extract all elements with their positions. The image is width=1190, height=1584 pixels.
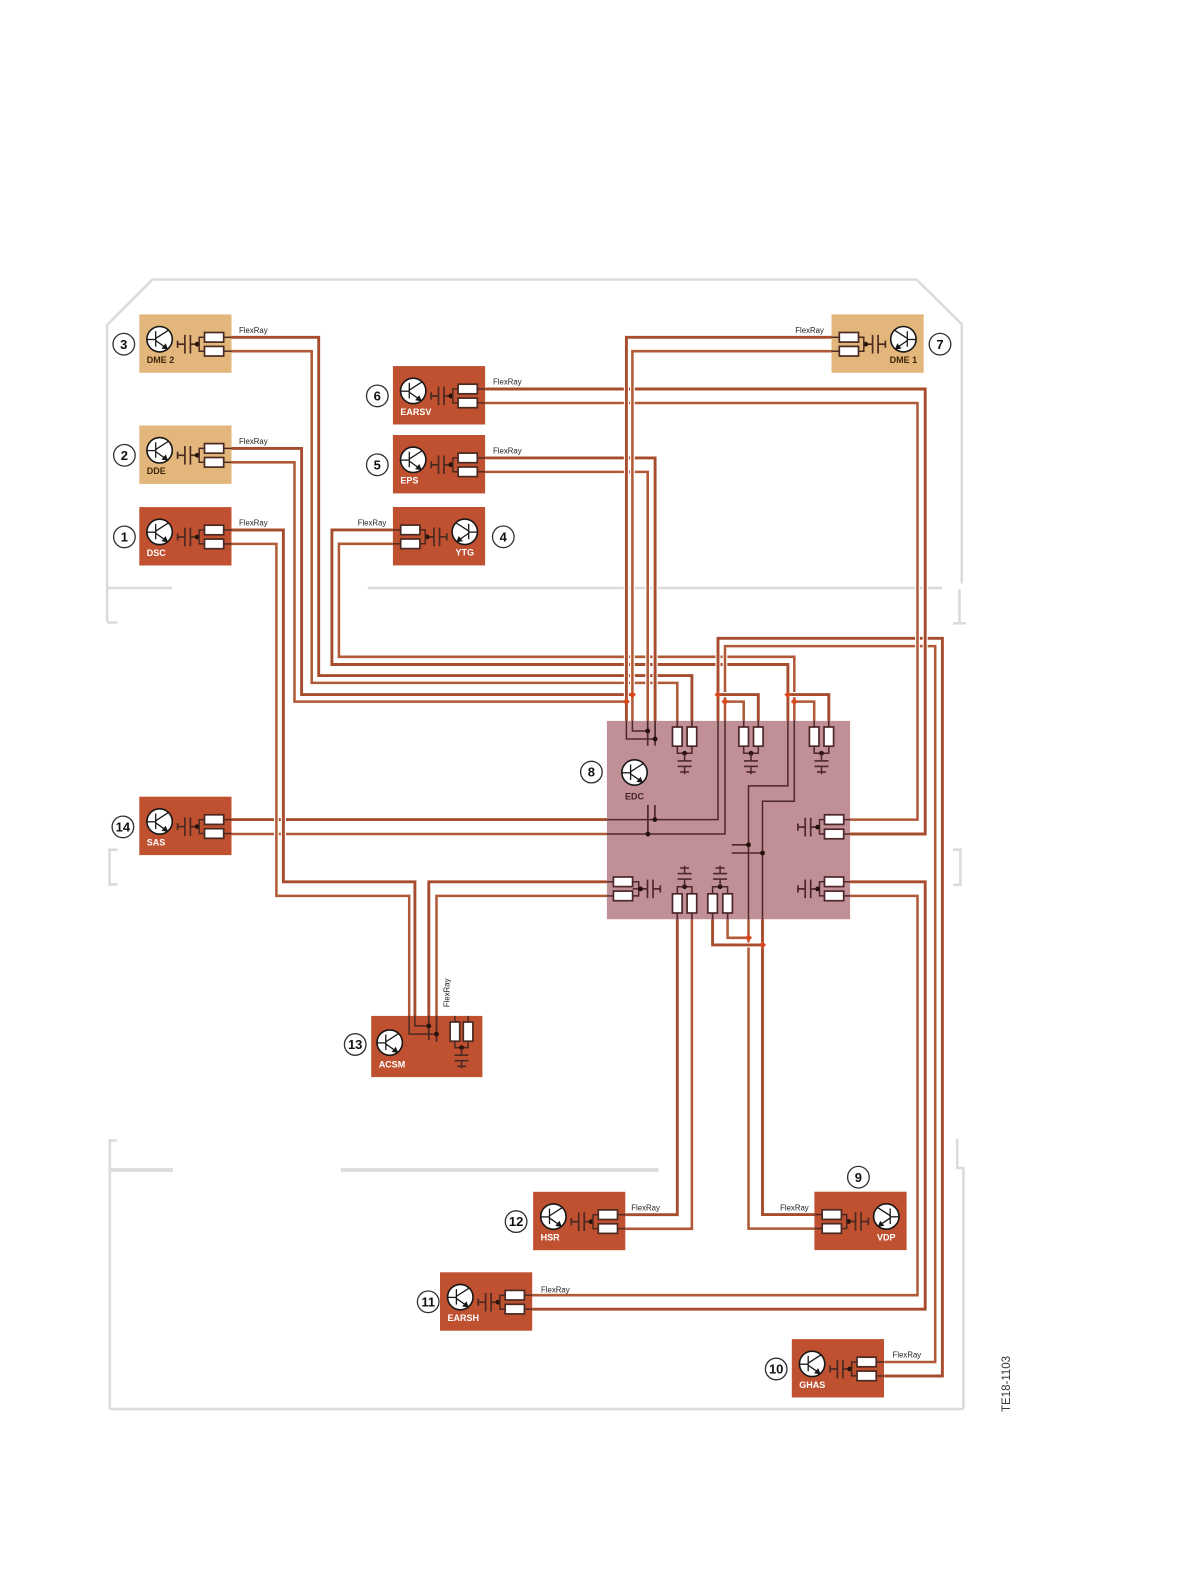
svg-text:EARSV: EARSV (400, 407, 431, 417)
control unit DME 2 box (139, 314, 231, 372)
car body mid sill line (368, 587, 942, 590)
svg-text:EPS: EPS (400, 476, 418, 486)
bus coupling capacitor DSC (178, 528, 198, 547)
EDC internal bus line BM (607, 721, 725, 834)
EDC left connector resistors (613, 877, 632, 887)
svg-text:GHAS: GHAS (799, 1380, 825, 1390)
wire EPS FlexRay BP (485, 458, 655, 722)
transistor symbol YTG (452, 519, 477, 544)
termination resistor DME 1 lower (859, 344, 864, 351)
termination resistor YTG upper (420, 530, 425, 537)
termination resistor VDP lower (841, 1222, 846, 1229)
svg-text:TE18-1103: TE18-1103 (1001, 1356, 1013, 1412)
pin stubs EARSH (524, 1294, 532, 1296)
wire branch to EDC termination 2 left (725, 702, 744, 723)
junction node termination3 BP (784, 691, 791, 698)
svg-text:10: 10 (769, 1362, 783, 1377)
pin stubs VDP (814, 1214, 822, 1216)
item number 14 (112, 816, 134, 838)
car body lower-right edge (957, 1139, 963, 1410)
item number 10 (765, 1358, 787, 1380)
bus coupling capacitor GHAS (830, 1360, 850, 1379)
svg-text:9: 9 (855, 1170, 862, 1185)
bus coupling capacitor EARSH (478, 1293, 498, 1312)
termination resistor EPS upper (453, 458, 458, 465)
wire VDP FlexRay BP (763, 917, 815, 1215)
control unit YTG box (393, 507, 485, 565)
svg-text:7: 7 (936, 337, 943, 352)
termination resistor EARSV lower (453, 396, 458, 403)
svg-text:HSR: HSR (541, 1233, 561, 1243)
control unit EARSH box (440, 1272, 532, 1330)
svg-text:VDP: VDP (877, 1232, 896, 1242)
item number 5 (367, 454, 389, 476)
EDC right connector 1 capacitor (798, 818, 818, 837)
control unit EPS box (393, 435, 485, 493)
junction node termination3 BM (791, 698, 798, 705)
svg-text:FlexRay: FlexRay (239, 519, 268, 528)
item number 6 (367, 385, 389, 407)
EDC stub from DME1 BP (632, 721, 647, 731)
bus coupling capacitor DME 1 (866, 335, 886, 354)
termination resistor DDE upper (199, 448, 204, 455)
control unit EARSV box (393, 366, 485, 424)
wire DDE FlexRay BM (232, 462, 627, 701)
transistor symbol DME 2 (147, 327, 172, 352)
capacitor to ground (684, 753, 686, 761)
EDC SAS tap bars (647, 805, 649, 837)
EDC termination group 2 (743, 721, 745, 727)
car body left door bracket (110, 850, 118, 885)
svg-text:5: 5 (374, 457, 381, 472)
svg-text:FlexRay: FlexRay (780, 1204, 809, 1213)
junction node (677, 746, 692, 753)
wire EDC stub to VDP BP (713, 917, 763, 945)
junction node VDP stub BM (745, 934, 752, 941)
control unit ACSM box (371, 1016, 482, 1077)
wire branch to EDC termination 2 right (718, 695, 758, 723)
wire branch to EDC termination 3 left (794, 702, 814, 723)
pin stubs SAS (224, 819, 232, 821)
svg-text:4: 4 (500, 529, 508, 544)
svg-text:FlexRay: FlexRay (239, 326, 268, 335)
svg-text:8: 8 (588, 765, 595, 780)
item number 8 (581, 761, 603, 783)
transistor symbol EARSH (448, 1284, 473, 1309)
car body left foot stub (107, 621, 117, 624)
car body lower-left edge (110, 1141, 117, 1410)
EDC internal line to VDP BP (763, 721, 795, 919)
termination resistor SAS lower (199, 827, 204, 834)
svg-text:3: 3 (120, 337, 127, 352)
svg-text:FlexRay: FlexRay (893, 1351, 922, 1360)
car body right door bracket (953, 850, 960, 885)
bus coupling capacitor HSR (571, 1212, 591, 1231)
wire GHAS FlexRay BP long run (725, 646, 935, 1362)
wire DME1 FlexRay BP (626, 337, 831, 722)
bus coupling capacitor EPS (431, 456, 451, 475)
wire VDP FlexRay BM (749, 917, 815, 1229)
control unit DSC box (139, 507, 231, 565)
ACSM termination group (454, 1016, 456, 1022)
EDC transceiver tap bars top (647, 721, 649, 746)
svg-text:EDC: EDC (625, 792, 645, 802)
wire EARSV FlexRay BP (485, 389, 925, 834)
termination resistor DSC lower (199, 537, 204, 544)
wire EDC stub to VDP BM (728, 917, 749, 938)
wire SAS FlexRay BP (232, 817, 609, 822)
svg-text:12: 12 (509, 1214, 523, 1229)
EDC right connector 2 capacitor (798, 880, 818, 899)
car body left sill line (107, 587, 172, 590)
transistor symbol DSC (147, 519, 172, 544)
control unit DDE box (139, 426, 231, 484)
capacitor to ground (821, 753, 823, 761)
pin stubs DSC (224, 529, 232, 531)
svg-text:FlexRay: FlexRay (358, 519, 387, 528)
termination resistor pair (676, 913, 678, 919)
svg-text:2: 2 (121, 448, 128, 463)
transistor symbol ACSM (377, 1030, 402, 1055)
svg-text:14: 14 (116, 820, 131, 835)
control unit VDP box (814, 1192, 906, 1250)
termination resistor DDE lower (199, 455, 204, 462)
capacitor to ground (719, 879, 721, 887)
termination resistor pair (712, 913, 714, 919)
wire DSC FlexRay BP (232, 530, 415, 1018)
car body outline top-left corner (108, 280, 962, 325)
wire HSR FlexRay BP (625, 917, 677, 1215)
pin stubs GHAS (876, 1361, 884, 1363)
item number 3 (113, 333, 135, 355)
wire EARSH FlexRay BP long run (532, 896, 917, 1295)
junction node DDE/DME1 BM (623, 698, 630, 705)
pin stubs EARSV (477, 388, 485, 390)
car body right door jamb (958, 589, 961, 622)
wire DDE FlexRay BP (232, 448, 633, 694)
transistor symbol DDE (147, 438, 172, 463)
termination resistor EARSH lower (500, 1302, 505, 1309)
EDC right connector 2 resistors (825, 877, 844, 887)
junction node VDP stub BP (759, 941, 766, 948)
svg-text:FlexRay: FlexRay (443, 978, 452, 1007)
car body bottom edge (110, 1408, 964, 1411)
termination resistor YTG lower (420, 537, 425, 544)
bus coupling capacitor VDP (849, 1212, 869, 1231)
junction node termination2 BP (714, 691, 721, 698)
transistor symbol SAS (147, 809, 172, 834)
bus coupling capacitor DDE (178, 446, 198, 465)
svg-text:SAS: SAS (147, 837, 166, 847)
wire branch to EDC termination 3 right (788, 695, 829, 723)
car body rear seat line left (111, 1168, 173, 1172)
wire YTG FlexRay BP (332, 530, 788, 722)
item number 2 (114, 445, 136, 467)
svg-text:DME 1: DME 1 (890, 355, 918, 365)
wire ACSM to EDC BM (437, 896, 609, 1017)
termination resistor SAS upper (199, 820, 204, 827)
control unit HSR box (533, 1192, 625, 1250)
control unit SAS box (139, 797, 231, 855)
junction node (677, 887, 692, 894)
item number 13 (344, 1034, 366, 1056)
junction node (713, 887, 728, 894)
transistor symbol HSR (541, 1204, 566, 1229)
control unit EDC box (607, 721, 850, 919)
termination resistor EARSH upper (500, 1295, 505, 1302)
termination resistor DME 1 upper (859, 337, 864, 344)
EDC termination group 4 bottom (676, 913, 678, 919)
pin stubs HSR (618, 1214, 626, 1216)
EDC termination group 5 bottom (712, 913, 714, 919)
junction node DDE/DME1 BP (629, 691, 636, 698)
wire SAS FlexRay BM (232, 832, 609, 837)
wire DME2 FlexRay BP (232, 337, 692, 723)
ACSM tap bars (428, 1016, 430, 1040)
bus coupling capacitor DME 2 (178, 335, 198, 354)
wire GHAS FlexRay BM long run (718, 638, 942, 1376)
item number 7 (929, 333, 951, 355)
ACSM stub from DSC BP (415, 1016, 429, 1026)
svg-text:FlexRay: FlexRay (239, 437, 268, 446)
termination resistor GHAS lower (852, 1369, 857, 1376)
EDC internal bus line BP (607, 721, 718, 820)
wire DSC FlexRay BM (232, 544, 410, 1018)
svg-text:13: 13 (348, 1037, 362, 1052)
capacitor to ground (750, 753, 752, 761)
control unit DME 1 box (832, 314, 924, 372)
transistor symbol VDP (874, 1204, 899, 1229)
termination resistor DSC upper (199, 530, 204, 537)
bus coupling capacitor YTG (427, 528, 447, 547)
EDC internal line to VDP BM (749, 721, 788, 919)
transistor symbol EARSV (401, 378, 426, 403)
pin stubs EPS (477, 457, 485, 459)
svg-text:DDE: DDE (147, 466, 166, 476)
svg-text:11: 11 (421, 1294, 435, 1309)
ACSM stub from DSC BM (409, 1016, 436, 1034)
termination resistor EPS lower (453, 465, 458, 472)
termination resistor GHAS upper (852, 1362, 857, 1369)
termination resistor pair (743, 721, 745, 727)
wire EARSV FlexRay BM (485, 403, 917, 820)
bus coupling capacitor EARSV (431, 387, 451, 406)
junction node (814, 746, 829, 753)
wire EARSH FlexRay BM long run (532, 882, 925, 1309)
EDC termination group 1 (676, 721, 678, 727)
car body rear seat line mid (341, 1168, 659, 1172)
termination resistor HSR lower (593, 1222, 598, 1229)
transistor symbol EDC (622, 760, 647, 785)
svg-text:FlexRay: FlexRay (493, 378, 522, 387)
svg-text:YTG: YTG (456, 548, 475, 558)
wire YTG FlexRay BM (339, 544, 794, 722)
junction node termination2 BM (721, 698, 728, 705)
svg-text:ACSM: ACSM (379, 1060, 406, 1070)
item number 1 (114, 526, 136, 548)
car body left edge (106, 324, 109, 622)
wire DME1 FlexRay BM (632, 351, 831, 722)
item number 12 (505, 1211, 527, 1233)
termination resistor DME 2 lower (199, 344, 204, 351)
car body right edge upper (960, 324, 963, 584)
transistor symbol EPS (401, 447, 426, 472)
wire EPS FlexRay BM (485, 472, 648, 722)
svg-text:DSC: DSC (147, 548, 167, 558)
transistor symbol GHAS (799, 1351, 824, 1376)
capacitor to ground (684, 879, 686, 887)
item number 9 (848, 1166, 870, 1188)
bus coupling capacitor SAS (178, 817, 198, 836)
pin stubs YTG (393, 529, 401, 531)
termination resistor pair (813, 721, 815, 727)
wire DME2 FlexRay BM (232, 351, 678, 723)
svg-text:1: 1 (121, 530, 128, 545)
EDC stub from DME1 BM (626, 721, 655, 739)
EDC termination group 3 (813, 721, 815, 727)
svg-text:6: 6 (374, 389, 381, 404)
junction node (744, 746, 759, 753)
pin stubs DME 2 (224, 336, 232, 338)
item number 4 (493, 526, 515, 548)
termination resistor DME 2 upper (199, 337, 204, 344)
svg-text:FlexRay: FlexRay (795, 326, 824, 335)
wire ACSM to EDC BP (429, 882, 609, 1017)
pin stubs DME 1 (832, 336, 840, 338)
EDC left connector capacitor (641, 880, 661, 899)
svg-text:FlexRay: FlexRay (541, 1285, 570, 1294)
pin stubs DDE (224, 447, 232, 449)
termination resistor EARSV upper (453, 389, 458, 396)
EDC coupling capacitor plates center (732, 844, 749, 846)
termination resistor HSR upper (593, 1215, 598, 1222)
svg-text:DME 2: DME 2 (147, 355, 175, 365)
transistor symbol DME 1 (891, 327, 916, 352)
EDC right connector 1 resistors (825, 815, 844, 825)
item number 11 (417, 1291, 439, 1313)
wire HSR FlexRay BM (625, 917, 692, 1229)
termination resistor VDP upper (841, 1215, 846, 1222)
svg-text:FlexRay: FlexRay (631, 1203, 660, 1212)
svg-text:EARSH: EARSH (448, 1313, 480, 1323)
svg-text:FlexRay: FlexRay (493, 447, 522, 456)
termination resistor pair (676, 721, 678, 727)
control unit GHAS box (792, 1339, 884, 1397)
